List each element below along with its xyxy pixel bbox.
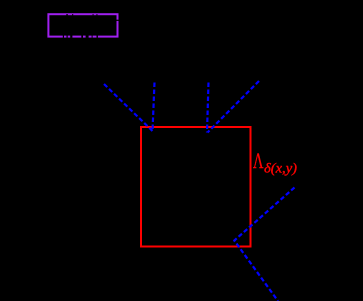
svg-text:Λ: Λ — [253, 148, 264, 173]
black text gap over purple right edge — [117, 20, 119, 21]
blue dashed line D: diagonal into P2 — [208, 81, 260, 133]
black text gaps over purple bottom edge — [63, 35, 98, 37]
svg-text:δ(x,y): δ(x,y) — [264, 162, 297, 177]
blue dashed line B: near-vertical into P1 — [153, 83, 155, 132]
purple rectangle (set E) — [48, 14, 117, 36]
black text gaps over purple top edge — [66, 14, 97, 16]
blue dashed line A: diagonal into P1 — [104, 84, 153, 131]
red square (slab Lambda) — [141, 127, 251, 247]
red label Lambda_delta(x,y) — [253, 148, 297, 177]
blue dashed line E: ray from vertex P3 up-right — [234, 188, 294, 301]
blue dashed line C: near-vertical into P2 — [207, 83, 209, 133]
